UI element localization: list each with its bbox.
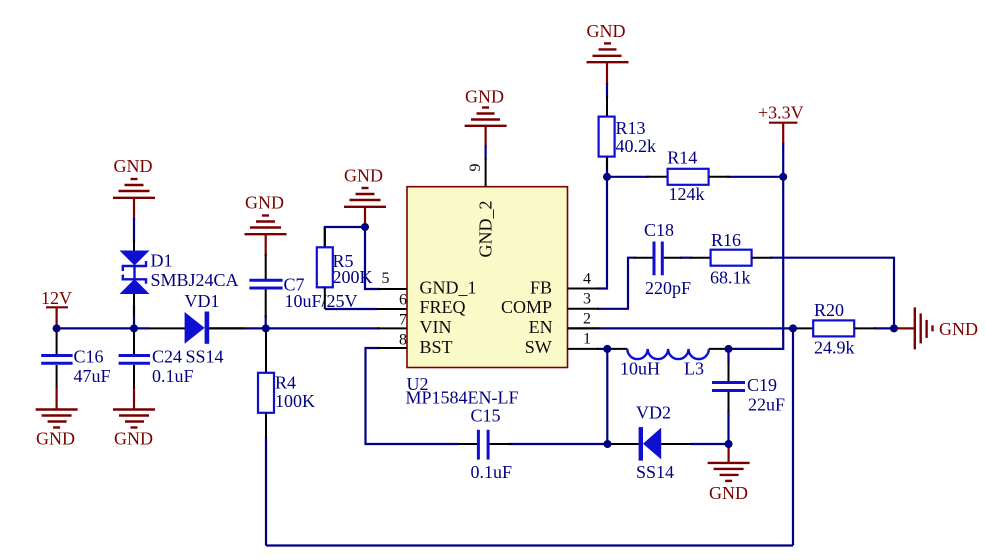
- ground GND above D1: [113, 156, 155, 220]
- node R14/+3.3V: [779, 173, 787, 181]
- svg-text:68.1k: 68.1k: [710, 268, 751, 288]
- wire SW node down to C15 row: [606, 349, 608, 444]
- wire bottom rail up to EN junction: [792, 328, 794, 545]
- U2 pin 1 SW: [525, 331, 599, 358]
- wire C15 right to SW node: [508, 443, 608, 445]
- wire R14 row: [607, 176, 649, 178]
- svg-text:FB: FB: [530, 278, 552, 298]
- svg-text:9: 9: [467, 164, 484, 172]
- svg-text:R16: R16: [711, 230, 741, 250]
- svg-text:24.9k: 24.9k: [814, 337, 855, 357]
- svg-text:124k: 124k: [669, 184, 705, 204]
- svg-text:VIN: VIN: [420, 317, 452, 337]
- svg-text:GND_1: GND_1: [420, 278, 477, 298]
- wire VD2 right to junction: [690, 443, 729, 445]
- svg-text:6: 6: [399, 292, 407, 309]
- ground GND above R13: [587, 21, 629, 85]
- node R20/R16/earth: [890, 324, 898, 332]
- svg-text:R14: R14: [667, 148, 697, 168]
- svg-text:C15: C15: [471, 405, 501, 425]
- wire D1 top: [133, 218, 135, 243]
- resistor R13: [599, 96, 656, 170]
- svg-text:SS14: SS14: [186, 347, 224, 367]
- capacitor C24: [119, 328, 194, 388]
- svg-text:7: 7: [399, 312, 407, 329]
- resistor R4: [258, 328, 315, 438]
- node D1/C24: [130, 324, 138, 332]
- svg-text:GND: GND: [939, 319, 978, 339]
- wire C7 bottom to rail: [265, 315, 267, 328]
- svg-text:D1: D1: [151, 251, 173, 271]
- U2 pin 9 GND_2: [467, 158, 496, 258]
- svg-text:GND: GND: [114, 428, 153, 448]
- wire +3.3V vertical down to L3 output: [729, 143, 784, 349]
- ground GND above C7: [245, 193, 287, 257]
- op-amp U2 body: [406, 187, 568, 408]
- svg-text:SMBJ24CA: SMBJ24CA: [151, 270, 239, 290]
- diode VD2 SS14: [608, 402, 693, 482]
- capacitor C19: [712, 361, 785, 415]
- svg-text:GND: GND: [36, 428, 75, 448]
- svg-text:COMP: COMP: [501, 297, 552, 317]
- svg-text:C19: C19: [747, 375, 777, 395]
- svg-text:GND: GND: [114, 156, 153, 176]
- capacitor C7: [249, 254, 357, 318]
- resistor R5: [317, 227, 373, 309]
- svg-text:3: 3: [583, 291, 591, 308]
- node R5/GND: [361, 223, 369, 231]
- node C7/R4: [262, 324, 270, 332]
- node R13/R14/FB: [603, 173, 611, 181]
- svg-text:100K: 100K: [275, 391, 315, 411]
- svg-text:40.2k: 40.2k: [616, 136, 657, 156]
- svg-text:+3.3V: +3.3V: [758, 103, 804, 123]
- svg-text:VD2: VD2: [636, 402, 671, 422]
- resistor R20: [793, 300, 876, 357]
- svg-text:R4: R4: [275, 373, 296, 393]
- svg-text:10uH: 10uH: [620, 359, 660, 379]
- svg-text:22uF: 22uF: [748, 395, 785, 415]
- wire pin9 vertical: [485, 145, 487, 160]
- wire EN row from U2 to R20: [568, 327, 793, 329]
- wire C18 right to R16: [680, 257, 692, 259]
- capacitor C16: [41, 328, 110, 388]
- resistor R16: [690, 230, 772, 288]
- svg-text:GND: GND: [709, 483, 748, 503]
- svg-text:L3: L3: [684, 359, 704, 379]
- svg-text:SW: SW: [525, 337, 552, 357]
- diode VD1 SS14: [150, 291, 245, 367]
- svg-text:FREQ: FREQ: [420, 297, 466, 317]
- svg-text:4: 4: [583, 270, 591, 287]
- wire C19 bottom to VD2 row: [727, 410, 729, 444]
- svg-text:2: 2: [583, 311, 591, 328]
- svg-text:1: 1: [583, 331, 591, 348]
- svg-text:GND: GND: [587, 21, 626, 41]
- wire R5 top corner: [325, 227, 365, 247]
- node EN/R20/bottom rail: [789, 324, 797, 332]
- wire BST corner to C15: [366, 348, 459, 444]
- wire FB corner up to R13: [597, 177, 607, 289]
- ground GND below C24: [113, 387, 155, 448]
- U2 pin 3 COMP: [501, 291, 599, 318]
- wire COMP corner up to C18: [597, 258, 636, 309]
- svg-text:0.1uF: 0.1uF: [471, 462, 513, 482]
- wire R20 right to earth: [874, 327, 897, 329]
- U2 pin 5 GND_1: [377, 270, 477, 298]
- svg-text:12V: 12V: [41, 288, 72, 308]
- svg-text:GND_2: GND_2: [476, 201, 496, 258]
- wire R13 bottom: [606, 157, 608, 177]
- wire R4 bottom to bottom rail: [265, 437, 267, 546]
- svg-text:GND: GND: [245, 193, 284, 213]
- wire R16 right corner down to R20 node: [770, 258, 894, 329]
- svg-text:0.1uF: 0.1uF: [152, 366, 194, 386]
- svg-text:R13: R13: [616, 118, 646, 138]
- svg-text:VD1: VD1: [185, 291, 220, 311]
- U2 pin 8 BST: [377, 332, 453, 358]
- svg-text:MP1584EN-LF: MP1584EN-LF: [406, 388, 519, 408]
- ground GND above R5: [344, 166, 386, 228]
- ground GND above pin 9: [465, 87, 507, 149]
- svg-text:C18: C18: [644, 220, 674, 240]
- svg-text:10uF/25V: 10uF/25V: [285, 291, 358, 311]
- U2 pin 7 VIN: [377, 312, 452, 338]
- svg-text:R20: R20: [814, 300, 844, 320]
- svg-text:200K: 200K: [333, 267, 373, 287]
- svg-text:C16: C16: [74, 347, 104, 367]
- svg-text:BST: BST: [420, 337, 453, 357]
- svg-text:5: 5: [382, 270, 390, 287]
- wire L3 right junction to C19: [727, 349, 729, 363]
- resistor R14: [647, 148, 729, 204]
- node L3/C19/+3.3V: [725, 345, 733, 353]
- inductor L3: [607, 349, 728, 379]
- wire VD1 to VIN: [209, 327, 380, 329]
- svg-text:47uF: 47uF: [74, 366, 111, 386]
- U2 pin 6 FREQ: [377, 292, 466, 318]
- svg-text:EN: EN: [529, 317, 553, 337]
- node 12V: [53, 324, 61, 332]
- wire D1 bottom to rail: [133, 305, 135, 328]
- power port 12V: [41, 288, 72, 328]
- node SW/L3: [603, 345, 611, 353]
- svg-text:SS14: SS14: [636, 462, 674, 482]
- wire bottom rail: [266, 544, 793, 546]
- U2 pin 2 EN: [529, 311, 599, 338]
- capacitor C15: [458, 405, 512, 482]
- node C15/VD2: [604, 440, 612, 448]
- capacitor C18: [634, 220, 691, 298]
- ground GND right of R20 (rotated): [895, 307, 978, 349]
- U2 pin 4 FB: [530, 270, 599, 297]
- svg-text:GND: GND: [465, 87, 504, 107]
- svg-text:GND: GND: [344, 166, 383, 186]
- wire main 12V rail y=328: [57, 327, 150, 329]
- ground GND below C16: [36, 387, 78, 448]
- wire R13 top stem: [606, 83, 608, 98]
- wire R5 bottom to FREQ: [325, 308, 377, 310]
- svg-text:C24: C24: [152, 347, 182, 367]
- wire GND to pin5 vertical: [365, 227, 380, 289]
- ground GND below VD2/C19 node: [708, 444, 750, 503]
- svg-text:8: 8: [399, 332, 407, 349]
- power port +3.3V: [758, 103, 804, 146]
- wire SW to L3: [597, 348, 607, 350]
- svg-text:220pF: 220pF: [645, 278, 691, 298]
- node VD2/C19/GND: [725, 440, 733, 448]
- TVS diode D1 SMBJ24CA: [120, 240, 239, 315]
